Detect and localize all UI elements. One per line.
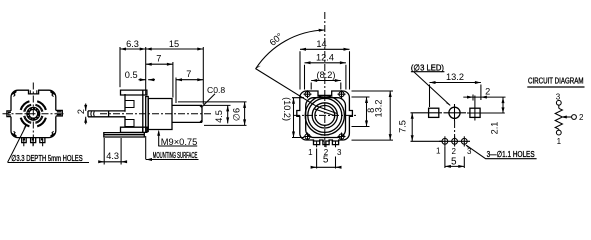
- title underline: [527, 86, 584, 88]
- 0.5 arrows: [139, 79, 156, 81]
- ext line x172.9: [172, 62, 174, 98]
- ext line x145.7: [145, 47, 147, 96]
- dim 5 line: [445, 165, 464, 167]
- LED circle: [449, 107, 460, 118]
- dim 2 tick: [472, 95, 474, 101]
- bushing: [148, 99, 172, 130]
- terminal 1 circle: [556, 130, 561, 135]
- dim 7b line: [176, 79, 203, 81]
- shaft: [172, 105, 202, 122]
- dim 2 pin thickness: [85, 104, 87, 125]
- svg-text:7: 7: [186, 69, 191, 79]
- holes crossline: [439, 140, 470, 142]
- leader arrowhead: [23, 124, 27, 130]
- centerline horizontal: [3, 113, 65, 115]
- svg-text:13.2: 13.2: [446, 72, 464, 82]
- svg-text:MOUNTING SURFACE: MOUNTING SURFACE: [153, 151, 198, 160]
- corner step bottom-right: [50, 131, 54, 137]
- svg-text:2: 2: [451, 147, 456, 156]
- ext line x120: [119, 47, 121, 87]
- dim (8.2): [311, 80, 341, 82]
- circle r10.4: [315, 106, 335, 126]
- hole3: [461, 136, 467, 146]
- corner step top-right: [50, 91, 54, 97]
- dim 4.3 line: [99, 161, 126, 163]
- dim line top chain: [120, 48, 203, 50]
- svg-text:13.2: 13.2: [373, 100, 383, 118]
- dim 13.2 ext: [352, 91, 394, 140]
- svg-text:1: 1: [308, 148, 313, 157]
- VIEW1: front view: [3, 83, 90, 163]
- VIEW4: pcb layout: [397, 62, 536, 168]
- dim (10.2) line: [293, 98, 295, 138]
- dim 13.2 ext: [430, 85, 481, 108]
- centerline horizontal: [293, 114, 356, 116]
- frame notch upper: [125, 101, 134, 108]
- dim 14: [300, 48, 350, 50]
- foot pins center ticks: [24, 139, 43, 146]
- shaft inner circle: [29, 109, 38, 118]
- 60deg arc: [256, 30, 325, 69]
- dim 8 ext: [352, 97, 370, 127]
- svg-text:0.5: 0.5: [125, 70, 138, 80]
- ext line shaft bottom dia: [204, 124, 247, 126]
- 60deg radial line: [255, 69, 315, 106]
- M9 underline: [158, 145, 197, 147]
- wire top: [558, 105, 560, 108]
- dim 7.5 ext: [411, 113, 443, 142]
- LED crosshair h: [444, 112, 467, 114]
- corner step bottom-left: [12, 131, 16, 137]
- svg-text:(8.2): (8.2): [317, 70, 336, 80]
- VIEW3: rear view: [255, 12, 393, 169]
- C0.8 leader: [203, 94, 216, 106]
- arrows top chain: [120, 48, 203, 51]
- svg-text:(∅3 LED): (∅3 LED): [411, 62, 444, 72]
- mounting surface ext: [145, 136, 147, 160]
- left pad: [429, 108, 439, 117]
- svg-text:14: 14: [316, 39, 326, 49]
- svg-text:4.5: 4.5: [214, 110, 224, 123]
- centerline vertical: [32, 83, 34, 147]
- left side tab: [7, 111, 11, 117]
- svg-text:2.1: 2.1: [489, 122, 499, 135]
- bottom bar: [104, 133, 145, 137]
- arrows 7b: [176, 78, 203, 81]
- svg-text:1: 1: [557, 137, 562, 146]
- dim 5 line: [311, 166, 341, 168]
- corner hole BL: [304, 133, 312, 141]
- svg-text:3: 3: [337, 148, 342, 157]
- svg-text:2: 2: [485, 87, 490, 97]
- terminal 2 circle: [572, 115, 577, 120]
- corner hole BR: [338, 133, 346, 141]
- M9 leader: [158, 132, 160, 147]
- svg-text:15: 15: [169, 39, 179, 49]
- leader line holes label: [8, 125, 27, 163]
- VIEW2: side view: [76, 39, 247, 164]
- body outline: [11, 90, 56, 137]
- holes leader: [466, 145, 536, 159]
- dim 12.4: [305, 62, 346, 64]
- feet: [22, 138, 45, 143]
- svg-text:5: 5: [323, 155, 329, 166]
- svg-text:CIRCUIT DIAGRAM: CIRCUIT DIAGRAM: [528, 77, 584, 86]
- dim 4.5 line: [227, 105, 229, 123]
- label underline: [8, 162, 89, 164]
- dim 7a line: [146, 63, 173, 65]
- resistor zigzag: [555, 108, 562, 129]
- washer: [146, 97, 149, 132]
- dim (10.2) ext: [292, 98, 304, 138]
- LED to hole2 centerline: [454, 121, 456, 139]
- wire bottom: [558, 129, 560, 130]
- dim 2.1 line: [502, 97, 504, 113]
- CIRCUIT DIAGRAM: [527, 77, 584, 146]
- svg-text:1: 1: [436, 147, 441, 156]
- dim 13.2 line: [389, 91, 391, 140]
- ext line shaft top dia: [178, 101, 247, 103]
- ext line x203.3: [202, 47, 204, 104]
- left pad centermarks: [426, 112, 443, 114]
- dim 5 ext lines: [317, 149, 336, 169]
- top notch tab: [30, 90, 37, 94]
- middle arcs r9: [24, 104, 43, 123]
- pin strip marks: [91, 112, 94, 117]
- pin ticks: [317, 141, 336, 148]
- LED label underline: [411, 71, 445, 73]
- dim 4.3 ext lines: [104, 138, 121, 165]
- svg-text:6.3: 6.3: [126, 39, 139, 49]
- svg-text:(10.2): (10.2): [282, 97, 292, 121]
- bottom tab: [121, 127, 147, 132]
- svg-text:5: 5: [451, 156, 457, 167]
- svg-text:∅6: ∅6: [231, 108, 241, 121]
- frame left edge: [124, 94, 126, 127]
- knurl ring: [28, 108, 39, 119]
- corner step top-left: [12, 91, 16, 97]
- circle r17.4: [308, 98, 342, 132]
- frame notch lower: [125, 120, 134, 127]
- right pad centermarks: [467, 96, 505, 121]
- svg-text:2: 2: [579, 113, 584, 122]
- ext line x176: [175, 78, 177, 104]
- mounting surface underline+arrow: [146, 159, 199, 161]
- wiper arrow: [563, 116, 572, 118]
- corner hole TL: [304, 90, 312, 98]
- frame right face: [142, 94, 144, 133]
- circle r13: [312, 103, 337, 128]
- right pad: [470, 108, 480, 117]
- svg-text:∅3.3 DEPTH 5mm HOLES: ∅3.3 DEPTH 5mm HOLES: [11, 153, 83, 163]
- svg-text:2: 2: [76, 109, 86, 114]
- top tab: [121, 90, 147, 95]
- svg-text:4.3: 4.3: [106, 151, 119, 161]
- svg-text:12.4: 12.4: [316, 52, 334, 62]
- ext line flat right: [204, 104, 231, 106]
- dim 5 ext: [445, 147, 464, 168]
- dim 7.5 line: [411, 113, 413, 142]
- arrows 7a: [146, 63, 173, 66]
- svg-text:7.5: 7.5: [397, 120, 407, 133]
- slot lines: [314, 106, 337, 116]
- LED crosshair v: [454, 104, 456, 121]
- centerline vertical: [324, 12, 326, 147]
- corner hole TR: [338, 90, 346, 98]
- svg-text:7: 7: [156, 54, 161, 64]
- circle r19.6: [305, 96, 344, 135]
- pins: [314, 140, 339, 145]
- svg-text:C0.8: C0.8: [207, 85, 225, 95]
- dim 13.2 line: [430, 82, 481, 84]
- terminal 3 circle: [556, 100, 561, 105]
- svg-text:3—∅1.1 HOLES: 3—∅1.1 HOLES: [487, 149, 535, 159]
- dim dia6 line: [244, 102, 246, 126]
- hole1: [442, 136, 448, 146]
- outer arc slots r13: [21, 101, 46, 126]
- dim 2 line: [463, 96, 505, 98]
- centerline: [100, 113, 213, 115]
- dim 8 line: [366, 97, 368, 127]
- body outline: [297, 91, 353, 141]
- shaft outer circle: [27, 107, 40, 120]
- rear pins: [88, 111, 125, 117]
- rounded square cover: [306, 98, 346, 138]
- hole2: [452, 136, 458, 146]
- right side tab: [56, 110, 63, 116]
- arc arrowheads: [256, 29, 325, 69]
- LED leader: [414, 72, 450, 105]
